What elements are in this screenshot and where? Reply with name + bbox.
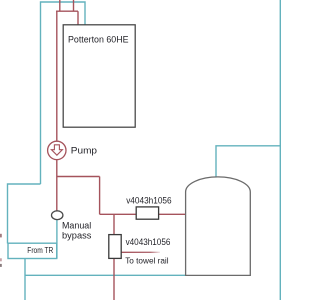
wire red: feed 2 from top edge xyxy=(73,0,75,11)
wire red: valve V2 outlet to towel rail (fading) xyxy=(121,251,160,253)
wire red: branch right at y=176.5 xyxy=(57,176,100,178)
wire teal: vertical from From TR box bottom down to page bottom xyxy=(24,259,26,300)
svg-text:v4043h1056: v4043h1056 xyxy=(126,237,171,247)
svg-text:bypass: bypass xyxy=(62,231,92,242)
motorised valve V1 v4043h1056 xyxy=(126,196,171,220)
wire red: pump to manual bypass valve xyxy=(56,160,58,211)
wire teal: horizontal run y=184 to far-left riser down to From TR box xyxy=(8,184,41,244)
wire red: valve V2 bottom drop to page bottom xyxy=(113,258,115,300)
wire teal: full-height right-hand riser xyxy=(279,0,281,300)
node From TR box xyxy=(8,243,57,258)
wire red: drop x=99.6 xyxy=(99,177,101,215)
wire teal: long bottom horizontal y=275 to cylinder left edge xyxy=(25,274,186,276)
motorised valve V2 v4043h1056 (to towel rail) xyxy=(109,235,171,266)
wire teal: riser from manual bypass valve down to From TR box xyxy=(56,220,58,259)
svg-text:From TR: From TR xyxy=(27,245,53,255)
svg-text:Pump: Pump xyxy=(71,146,97,157)
left-edge cropped artifact c xyxy=(0,264,2,267)
boiler Potterton 60HE xyxy=(63,25,135,127)
left-edge cropped artifact a xyxy=(0,234,2,238)
left-edge cropped artifact b xyxy=(0,258,2,261)
svg-text:To towel rail: To towel rail xyxy=(125,255,168,265)
svg-text:v4043h1056: v4043h1056 xyxy=(126,196,171,206)
wire red: header bar y=11 xyxy=(56,10,78,12)
svg-text:Potterton 60HE: Potterton 60HE xyxy=(68,34,129,45)
wire teal: branch from right riser into cylinder top xyxy=(216,146,280,178)
wire red: drop into boiler top xyxy=(77,11,79,25)
wire teal loop: left riser up, top run, right drop into boiler xyxy=(41,2,86,184)
manual bypass valve xyxy=(52,211,92,242)
hot water cylinder xyxy=(186,177,251,276)
wire red: long drop to pump xyxy=(56,11,58,142)
wire red: tee down to valve V2 xyxy=(113,214,115,234)
wire red: valve V1 to cylinder xyxy=(159,213,186,215)
wire red: feed 1 from top edge xyxy=(59,0,61,11)
pump P1 xyxy=(48,141,97,159)
wire red: run to valve V1 xyxy=(100,213,137,215)
